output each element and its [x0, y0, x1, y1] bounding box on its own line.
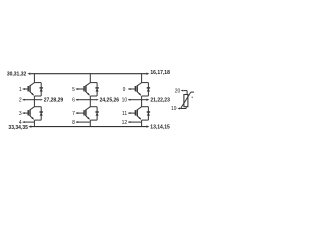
svg-text:13,14,15: 13,14,15 [150, 125, 170, 131]
svg-text:7: 7 [72, 111, 75, 117]
svg-text:24,25,26: 24,25,26 [100, 98, 120, 104]
svg-text:8: 8 [72, 120, 75, 126]
svg-text:6: 6 [72, 98, 75, 104]
svg-text:19: 19 [171, 106, 177, 112]
svg-text:2: 2 [19, 98, 22, 104]
svg-text:33,34,35: 33,34,35 [8, 125, 28, 131]
svg-text:21,22,23: 21,22,23 [150, 98, 170, 104]
svg-text:30,31,32: 30,31,32 [7, 71, 27, 77]
svg-text:3: 3 [19, 111, 22, 117]
svg-text:20: 20 [175, 89, 181, 95]
svg-text:9: 9 [123, 87, 126, 93]
svg-text:12: 12 [122, 120, 128, 126]
svg-text:16,17,18: 16,17,18 [150, 70, 170, 76]
svg-text:11: 11 [122, 111, 127, 117]
svg-text:27,28,29: 27,28,29 [44, 98, 64, 104]
svg-text:10: 10 [122, 98, 128, 104]
svg-text:1: 1 [19, 87, 22, 93]
svg-text:5: 5 [72, 87, 75, 93]
